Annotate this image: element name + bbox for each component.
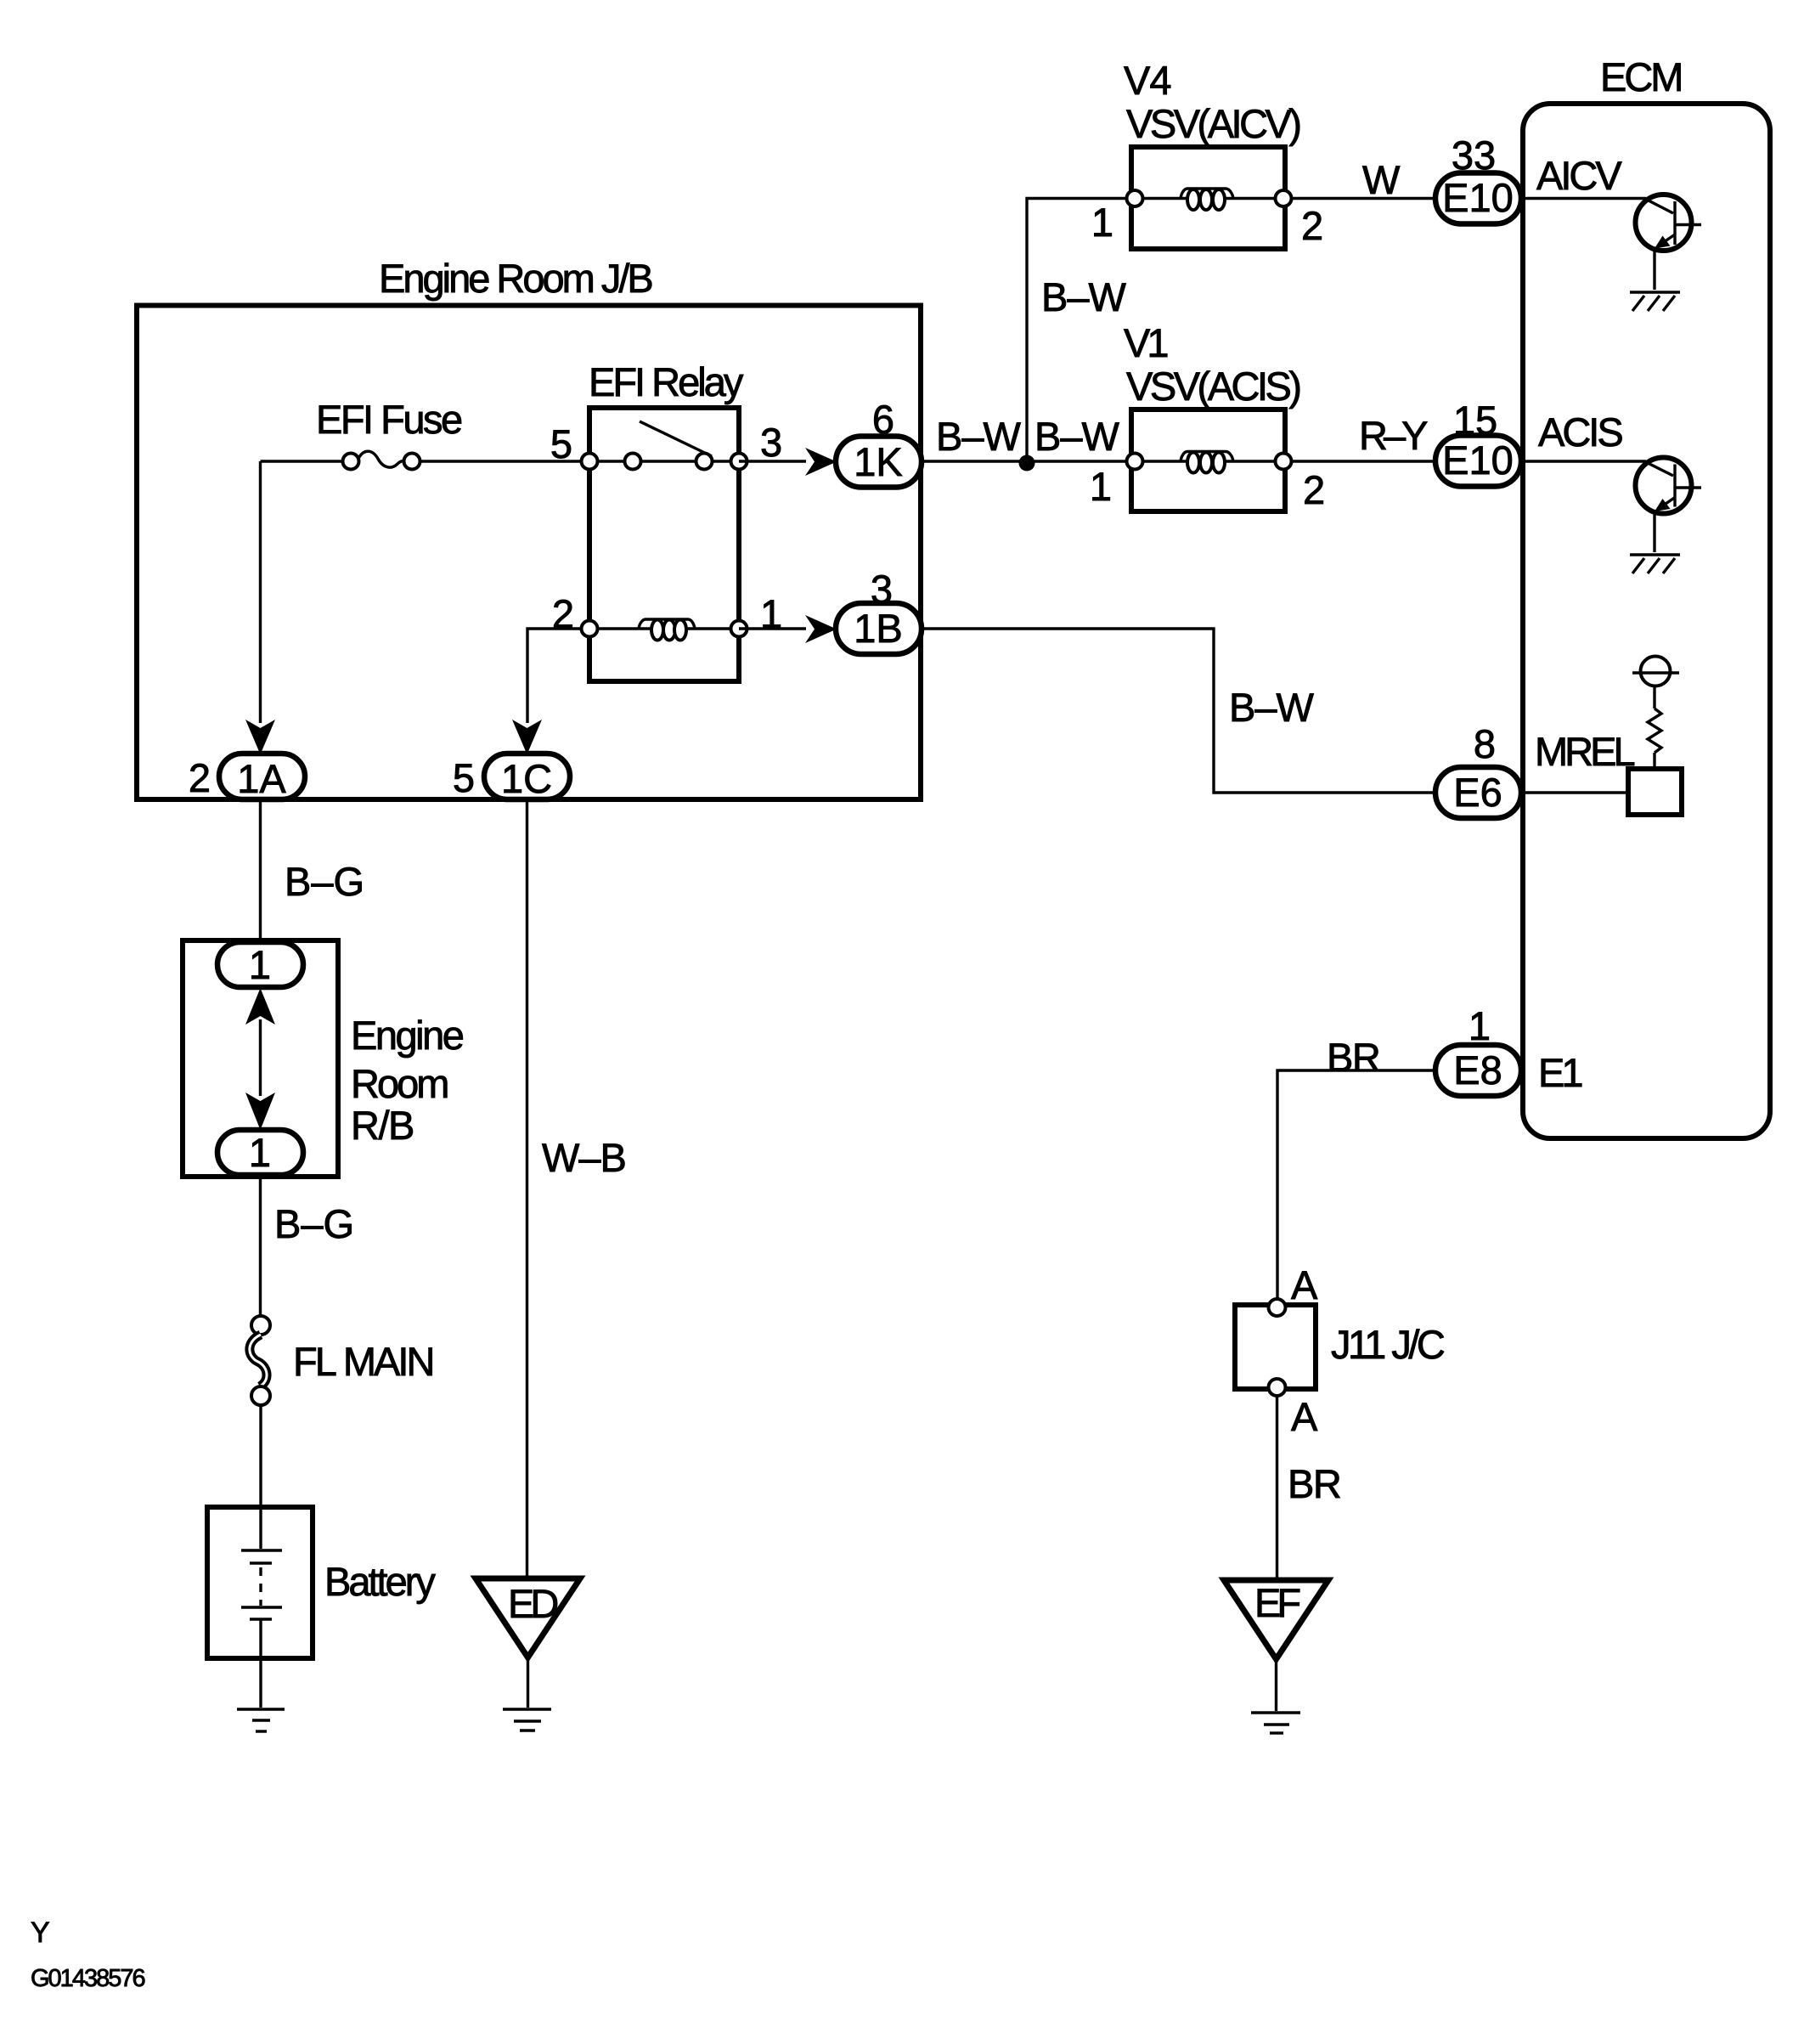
J11 top terminal — [1269, 1299, 1286, 1316]
R/B top connector oval 1 — [217, 942, 303, 987]
svg-text:B–W: B–W — [1229, 685, 1314, 730]
transistor Q2 emitter down lead — [1653, 512, 1655, 553]
connector 1A — [219, 754, 305, 799]
valve VSV(AICV) V4 box — [1131, 147, 1285, 249]
relay pin 3 terminal — [731, 454, 747, 470]
arrow into 1K — [805, 448, 837, 476]
wire J11 down to EF triangle — [1276, 1396, 1278, 1582]
VSV(ACIS) pin 1 terminal — [1127, 454, 1143, 470]
svg-text:15: 15 — [1453, 398, 1497, 443]
transistor Q2 circle — [1636, 458, 1692, 514]
battery plate long top — [241, 1549, 282, 1551]
wire 1K to junction and on to VSV(ACIS) pin 1 — [922, 460, 1127, 462]
svg-text:ED: ED — [508, 1581, 557, 1626]
svg-text:VSV(ACIS): VSV(ACIS) — [1126, 364, 1299, 409]
relay pin 2 terminal — [582, 621, 598, 637]
svg-text:Engine: Engine — [351, 1013, 464, 1058]
svg-text:R–Y: R–Y — [1359, 413, 1428, 458]
junction block Engine Room J/B box — [137, 306, 921, 800]
MREL lead circle to resistor — [1653, 686, 1655, 709]
relay coil — [639, 619, 695, 629]
ground triangle EF — [1224, 1580, 1328, 1659]
svg-text:1A: 1A — [237, 756, 286, 801]
MREL relay coil box — [1628, 769, 1682, 815]
VSV(AICV) coil wire pin1 to pin2 — [1135, 197, 1283, 200]
junction connector J11 J/C box — [1235, 1305, 1316, 1389]
battery plate short bottom — [250, 1618, 272, 1620]
battery plate long bottom — [241, 1606, 282, 1608]
svg-text:1B: 1B — [854, 606, 903, 651]
svg-text:5: 5 — [453, 755, 475, 800]
svg-text:B–G: B–G — [285, 859, 364, 904]
arrow down into R/B bottom connector — [245, 1093, 275, 1130]
connector 1K — [836, 437, 922, 488]
svg-text:A: A — [1291, 1394, 1318, 1439]
svg-text:B–W: B–W — [1041, 274, 1126, 319]
wire FL MAIN to battery — [259, 1405, 262, 1510]
transistor Q1 circle — [1636, 195, 1692, 251]
VSV(AICV) coil — [1181, 189, 1233, 199]
transistor Q1 collector stub — [1675, 223, 1701, 226]
svg-text:ACIS: ACIS — [1538, 409, 1622, 455]
relay contact fixed terminal left — [625, 454, 641, 470]
transistor Q1 emitter with arrow — [1661, 234, 1675, 244]
wire fuse row left segment — [261, 460, 344, 462]
svg-text:MREL: MREL — [1535, 729, 1634, 774]
relay coil wire pin2 to pin1 — [589, 627, 739, 630]
wire E6 into ECM to MREL coil box — [1521, 791, 1628, 793]
svg-text:E10: E10 — [1442, 175, 1514, 220]
battery internal top lead — [259, 1510, 262, 1549]
battery dashed middle lead — [259, 1567, 262, 1606]
svg-text:ECM: ECM — [1600, 54, 1681, 99]
relay pin 1 terminal — [731, 621, 747, 637]
svg-text:W: W — [1362, 157, 1401, 202]
wire VSV(ACIS) pin2 to E10 pin15 — [1291, 460, 1436, 462]
transistor Q1 emitter down lead — [1653, 249, 1655, 290]
svg-text:E1: E1 — [1538, 1050, 1581, 1095]
battery plate short top — [250, 1561, 272, 1564]
valve VSV(ACIS) V1 box — [1131, 409, 1285, 511]
wire 1C down to ED ground triangle — [526, 799, 528, 1580]
svg-text:3: 3 — [760, 420, 782, 465]
svg-text:8: 8 — [1474, 721, 1496, 766]
connector 1B — [836, 603, 922, 654]
resistor zigzag MREL — [1648, 709, 1661, 753]
svg-text:Battery: Battery — [324, 1559, 436, 1604]
svg-text:AICV: AICV — [1536, 153, 1622, 198]
relay contact fixed terminal right — [696, 454, 713, 470]
wire E10-15 into ECM to transistor Q2 — [1521, 460, 1646, 462]
svg-text:6: 6 — [872, 397, 894, 442]
SEC-ECM — [922, 54, 1770, 1299]
arrow up into R/B top connector — [245, 988, 275, 1025]
svg-text:R/B: R/B — [351, 1103, 414, 1148]
svg-text:1K: 1K — [854, 439, 903, 484]
svg-text:J11 J/C: J11 J/C — [1331, 1322, 1445, 1367]
svg-text:1: 1 — [1090, 464, 1112, 509]
transistor Q2 base bar — [1673, 465, 1676, 507]
fusible link FL MAIN symbol — [251, 1316, 270, 1335]
transistor Q1 base lead — [1644, 199, 1673, 214]
MREL lead resistor to coil box — [1653, 753, 1655, 769]
wire battery to ground — [259, 1658, 262, 1708]
svg-text:1: 1 — [249, 1130, 271, 1175]
svg-text:BR: BR — [1288, 1461, 1340, 1506]
transistor Q2 emitter with arrow — [1661, 498, 1675, 507]
wire fuse to relay pin 5 — [420, 460, 588, 462]
svg-text:W–B: W–B — [542, 1135, 626, 1180]
svg-text:VSV(AICV): VSV(AICV) — [1126, 101, 1299, 146]
ground earth under ED — [503, 1708, 551, 1710]
J11 bottom terminal — [1269, 1379, 1286, 1396]
VSV(ACIS) coil wire pin1 to pin2 — [1135, 460, 1283, 462]
battery box — [207, 1507, 313, 1658]
svg-text:1C: 1C — [501, 756, 552, 801]
transistor Q2 collector stub — [1675, 486, 1701, 488]
ground triangle ED — [476, 1578, 580, 1657]
wire ED to ground — [527, 1657, 529, 1708]
svg-text:2: 2 — [189, 755, 211, 800]
relay block Engine Room R/B box — [183, 940, 338, 1177]
ground earth under EF — [1251, 1711, 1300, 1714]
wire 1A down to Engine Room R/B — [259, 799, 262, 943]
wire VSV(AICV) pin2 to E10 pin33 — [1291, 197, 1436, 200]
ground chassis under Q2 — [1630, 553, 1680, 556]
svg-text:1: 1 — [1469, 1003, 1491, 1048]
ECM box — [1523, 104, 1770, 1138]
svg-text:Y: Y — [31, 1917, 50, 1949]
VSV(ACIS) coil — [1181, 452, 1233, 462]
SEC-VSV — [922, 58, 1436, 512]
svg-text:2: 2 — [1301, 203, 1323, 248]
svg-text:BR: BR — [1327, 1035, 1379, 1080]
wire E8 to J11 drop — [1277, 1070, 1436, 1299]
wire R/B down to FL MAIN — [259, 1175, 262, 1317]
arrow into 1C — [512, 720, 542, 754]
node junction dot — [1019, 455, 1035, 471]
svg-text:FL MAIN: FL MAIN — [293, 1339, 432, 1384]
svg-text:2: 2 — [552, 591, 574, 636]
connector E8 pin 1 — [1435, 1045, 1521, 1096]
svg-text:Room: Room — [351, 1061, 448, 1106]
transistor Q2 base lead — [1644, 461, 1673, 476]
connector E6 pin 8 — [1435, 767, 1521, 818]
svg-text:1: 1 — [1091, 200, 1113, 245]
relay EFI Relay box — [589, 408, 739, 681]
SEC-JB — [137, 256, 922, 801]
wire from EFI fuse row down to connector 1A — [259, 461, 262, 723]
relay contact wire pin5 to pin3 — [589, 460, 739, 462]
svg-text:V1: V1 — [1124, 320, 1167, 365]
svg-text:3: 3 — [871, 567, 893, 612]
svg-text:A: A — [1291, 1262, 1318, 1307]
fuse EFI Fuse symbol — [358, 451, 405, 467]
wire EF to ground — [1275, 1659, 1277, 1711]
svg-text:Engine Room J/B: Engine Room J/B — [379, 256, 651, 301]
svg-text:B–W: B–W — [1034, 414, 1119, 459]
VSV(ACIS) pin 2 terminal — [1276, 454, 1292, 470]
wire junction up to VSV(AICV) pin 1 — [1027, 199, 1127, 462]
svg-text:E8: E8 — [1453, 1047, 1502, 1093]
svg-text:EF: EF — [1254, 1580, 1299, 1625]
wire 1B to E6 — [922, 629, 1436, 793]
ground chassis under Q1 — [1630, 291, 1680, 293]
svg-text:G01438576: G01438576 — [31, 1965, 144, 1992]
svg-text:2: 2 — [1303, 467, 1325, 512]
wire relay pin 3 to connector 1K — [739, 460, 806, 462]
svg-text:E10: E10 — [1442, 438, 1514, 483]
VSV(AICV) pin 2 terminal — [1276, 190, 1292, 206]
battery internal bottom lead — [259, 1619, 262, 1657]
svg-text:33: 33 — [1452, 133, 1496, 178]
svg-text:V4: V4 — [1124, 58, 1171, 103]
connector 1C — [484, 754, 570, 799]
wire relay pin 1 to connector 1B — [739, 627, 806, 630]
svg-text:EFI Fuse: EFI Fuse — [316, 397, 462, 442]
arrow into 1A — [245, 720, 275, 754]
MREL relay contact circle — [1641, 657, 1671, 686]
svg-text:B–G: B–G — [274, 1201, 354, 1246]
svg-text:E6: E6 — [1453, 770, 1502, 815]
svg-text:1: 1 — [249, 942, 271, 987]
arrow into 1B — [805, 615, 837, 643]
connector E10 pin 33 — [1435, 173, 1521, 224]
wire E10-33 into ECM to transistor Q1 — [1521, 197, 1646, 200]
svg-text:EFI Relay: EFI Relay — [589, 359, 744, 404]
SEC-RIGHTBOT — [1224, 1262, 1445, 1733]
VSV(AICV) pin 1 terminal — [1127, 190, 1143, 206]
R/B bottom connector oval 1 — [217, 1130, 303, 1175]
SEC-FOOTER — [31, 1917, 144, 1992]
relay pin 5 terminal — [582, 454, 598, 470]
SEC-LEFT — [183, 799, 626, 1731]
connector E10 pin 15 — [1435, 436, 1521, 487]
svg-text:5: 5 — [550, 421, 572, 466]
ground earth under battery — [237, 1708, 285, 1710]
relay switch blade — [640, 421, 712, 456]
transistor Q1 base bar — [1673, 201, 1676, 245]
wire between R/B arrows — [259, 1019, 262, 1096]
wire relay pin 2 to 1C drop — [527, 629, 589, 723]
svg-text:B–W: B–W — [936, 414, 1021, 459]
